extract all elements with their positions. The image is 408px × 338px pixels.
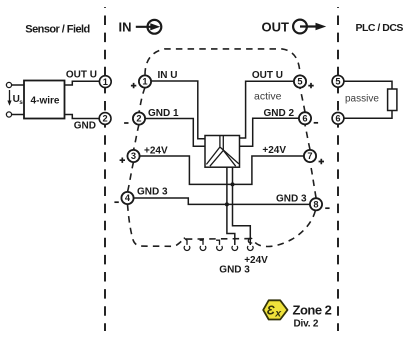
svg-text:GND 3: GND 3	[276, 194, 307, 205]
svg-text:GND 3: GND 3	[219, 265, 250, 276]
wire 4-wire to terminal 1	[65, 81, 100, 85]
feedthrough terminal 1	[99, 76, 111, 88]
svg-text:2: 2	[136, 114, 141, 124]
svg-text:IN U: IN U	[158, 70, 178, 81]
wire GND 2 (isolator to terminal 6)	[240, 118, 299, 146]
svg-text:GND 2: GND 2	[263, 108, 294, 119]
polarity + terminal 3	[120, 158, 125, 163]
wire GND 3 bus (terminal 4 to terminal 8)	[134, 198, 310, 204]
svg-text:IN: IN	[119, 19, 132, 34]
feedthrough terminal 2	[99, 113, 111, 125]
svg-text:x: x	[274, 307, 282, 319]
wire isolator GND3 pin to plug contact 4	[227, 167, 235, 245]
separator PLC side (dashed)	[337, 7, 339, 331]
svg-text:Sensor / Field: Sensor / Field	[25, 23, 89, 35]
PLC terminal 6	[332, 112, 344, 124]
device terminal 7	[304, 150, 316, 162]
svg-text:GND 1: GND 1	[148, 108, 179, 119]
device terminal 6	[299, 112, 311, 124]
separator field side (dashed)	[104, 7, 106, 331]
svg-text:Ɛ: Ɛ	[267, 304, 275, 318]
polarity + terminal 1	[131, 83, 136, 88]
device outline (dashed blob)	[128, 49, 317, 247]
svg-text:passive: passive	[345, 94, 379, 105]
junction +24V	[231, 182, 235, 186]
plug contact 2	[200, 240, 203, 245]
svg-text:4: 4	[125, 193, 131, 203]
wire passive loop bottom	[344, 111, 392, 119]
svg-text:5: 5	[335, 77, 340, 87]
plug contact row	[184, 238, 253, 251]
svg-text:3: 3	[131, 151, 136, 161]
svg-text:OUT U: OUT U	[252, 70, 283, 81]
svg-text:1: 1	[142, 77, 147, 87]
svg-text:OUT: OUT	[262, 19, 290, 34]
svg-text:4-wire: 4-wire	[31, 96, 60, 107]
device terminal 5	[294, 75, 306, 87]
plug contact 1	[184, 238, 187, 245]
polarity - terminal 2	[124, 122, 128, 124]
isolator U1 isolation Y outer	[206, 136, 239, 165]
junction GND3	[225, 202, 229, 206]
device terminal 1	[139, 75, 151, 87]
Us supply arrow	[7, 90, 23, 106]
device terminal 2	[133, 112, 145, 124]
svg-text:7: 7	[307, 151, 312, 161]
wire passive loop top	[344, 81, 392, 89]
4-wire source terminal top	[6, 82, 11, 87]
Ex hexagon symbol	[263, 300, 287, 319]
wire isolator +24V pin to plug contact 5	[233, 167, 251, 245]
svg-text:1: 1	[103, 77, 108, 87]
svg-text:s: s	[19, 99, 23, 106]
svg-text:2: 2	[103, 114, 108, 124]
OUT port symbol	[262, 19, 327, 34]
4-wire transmitter box	[24, 81, 65, 119]
wire IN U (terminal 1 to isolator)	[151, 81, 205, 139]
wire	[12, 84, 24, 86]
svg-text:GND: GND	[74, 120, 96, 131]
device terminal 3	[127, 150, 139, 162]
isolator U1 isolation Y inner	[210, 136, 236, 167]
polarity + terminal 5	[308, 83, 313, 88]
wire	[12, 114, 24, 116]
wire 4-wire to terminal 2	[65, 115, 100, 119]
device terminal 4	[121, 192, 133, 204]
svg-text:Zone 2: Zone 2	[293, 303, 332, 318]
polarity - terminal 6	[314, 122, 318, 124]
svg-text:8: 8	[313, 200, 318, 210]
svg-text:PLC / DCS: PLC / DCS	[356, 22, 404, 34]
IN port symbol	[119, 19, 162, 34]
svg-text:+24V: +24V	[144, 146, 168, 157]
plug contact 5	[248, 238, 252, 243]
polarity - terminal 4	[114, 201, 118, 203]
svg-text:Div. 2: Div. 2	[294, 319, 319, 330]
svg-text:GND 3: GND 3	[137, 186, 168, 197]
PLC terminal 5	[332, 75, 344, 87]
wire GND 1 (terminal 2 to isolator)	[145, 119, 205, 147]
svg-text:+24V: +24V	[262, 145, 286, 156]
polarity - terminal 8	[325, 207, 329, 209]
isolator U1 body	[205, 136, 240, 168]
wire +24V rail (terminal 3 to terminal 7)	[140, 156, 304, 184]
plug contact 3	[216, 240, 219, 245]
svg-text:6: 6	[302, 114, 307, 124]
device terminal 8	[310, 198, 322, 210]
4-wire source terminal bottom	[6, 112, 11, 117]
plug contact 4	[232, 246, 238, 251]
svg-text:active: active	[254, 91, 282, 103]
svg-text:6: 6	[335, 114, 340, 124]
svg-text:OUT U: OUT U	[66, 70, 97, 81]
svg-text:5: 5	[297, 77, 302, 87]
wire OUT U (isolator to terminal 5)	[240, 81, 294, 138]
polarity + terminal 7	[319, 159, 324, 164]
resistor load R	[388, 89, 397, 111]
